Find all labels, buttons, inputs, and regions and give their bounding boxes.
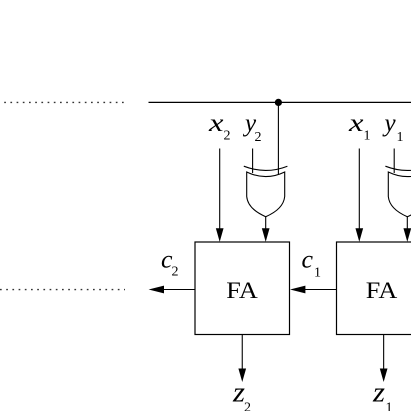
- svg-text:x: x: [208, 110, 224, 137]
- svg-text:FA: FA: [226, 278, 258, 304]
- svg-text:1: 1: [386, 401, 393, 411]
- svg-text:z: z: [372, 377, 385, 409]
- svg-text:c: c: [302, 247, 314, 274]
- svg-text:1: 1: [397, 130, 404, 145]
- svg-text:x: x: [348, 110, 364, 137]
- svg-text:1: 1: [314, 266, 321, 281]
- svg-text:y: y: [382, 110, 397, 137]
- svg-text:FA: FA: [366, 278, 398, 304]
- svg-text:2: 2: [244, 401, 251, 411]
- svg-text:2: 2: [172, 265, 179, 280]
- svg-text:2: 2: [255, 130, 262, 145]
- svg-text:2: 2: [224, 129, 231, 144]
- svg-text:1: 1: [364, 129, 371, 144]
